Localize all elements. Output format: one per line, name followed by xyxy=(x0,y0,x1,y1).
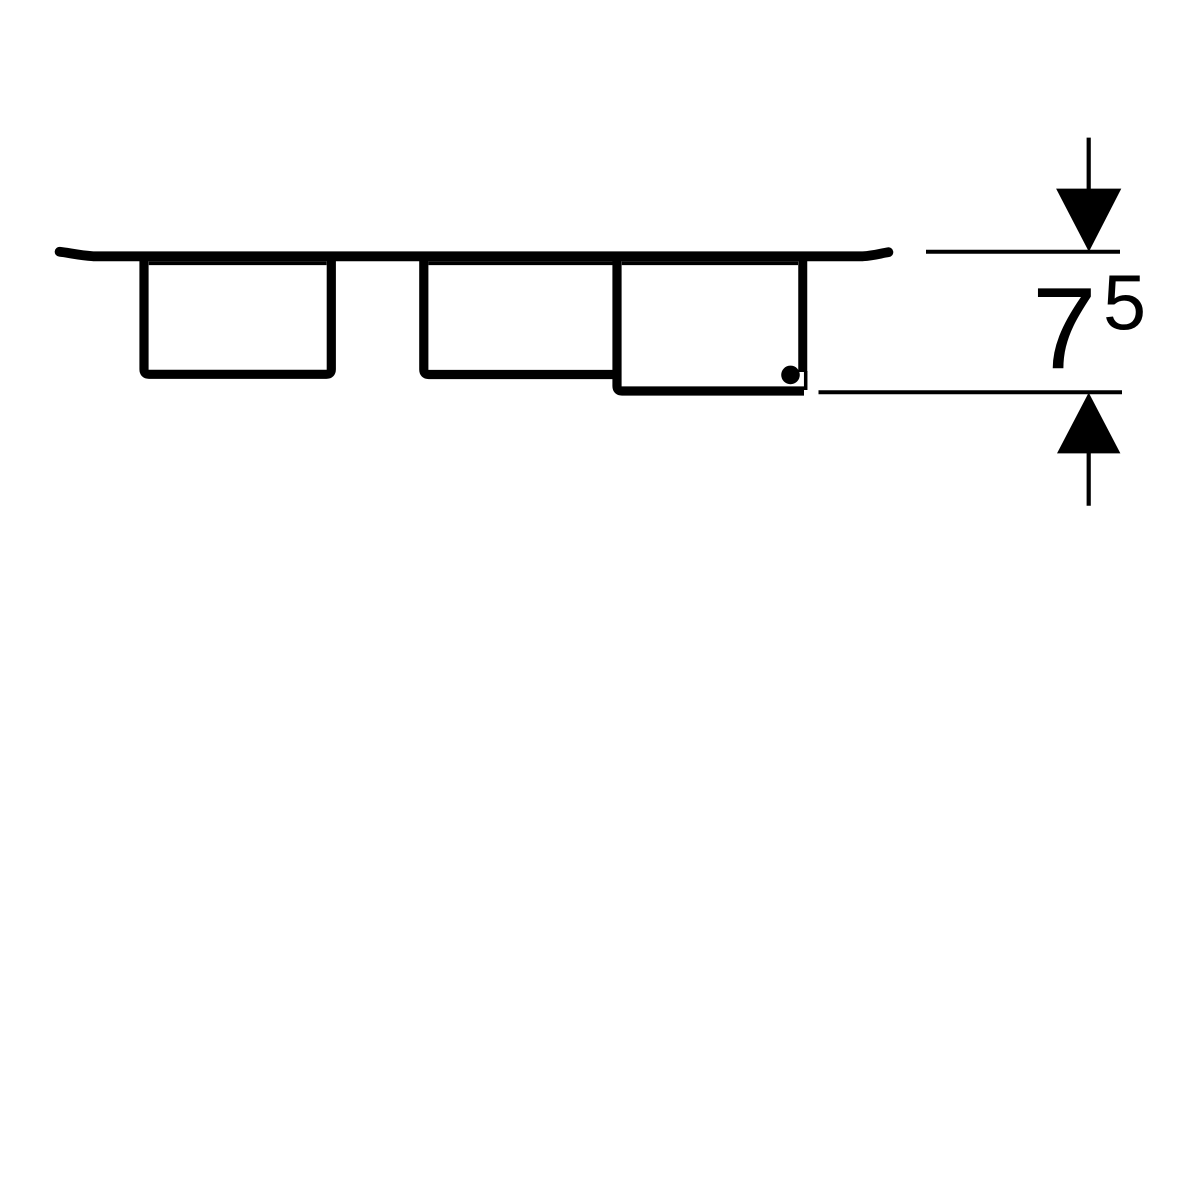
knob dot on box 3 xyxy=(781,366,800,385)
upper dimension extension line xyxy=(926,250,1120,254)
drawer box 2 top edge xyxy=(429,261,613,265)
svg-text:7: 7 xyxy=(1032,263,1097,393)
drawer box 3 right lip thin part xyxy=(804,371,808,390)
up arrowhead xyxy=(1057,393,1120,454)
drawer box 3 top edge xyxy=(622,261,798,265)
down arrow shaft xyxy=(1087,138,1091,191)
countertop plate xyxy=(60,252,889,256)
lower dimension extension line xyxy=(819,390,1123,394)
drawer box 3 left edge and bottom xyxy=(617,258,804,391)
up arrow shaft xyxy=(1087,452,1091,506)
drawer box 1 outline xyxy=(144,258,331,374)
drawer box 1 top edge xyxy=(149,261,327,265)
drawer box 3 right edge upper thick part xyxy=(798,258,807,372)
svg-text:5: 5 xyxy=(1103,260,1146,346)
down arrowhead xyxy=(1056,189,1121,252)
drawer box 2 outline xyxy=(424,258,621,375)
